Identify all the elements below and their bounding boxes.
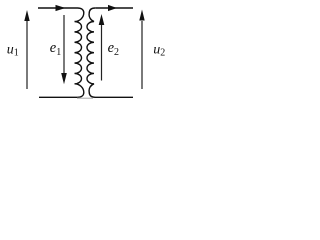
arrow e2 emf (up) — [101, 25, 103, 81]
wire: faint joining segment at bottom center — [77, 97, 93, 99]
wire: top-left horizontal conductor — [38, 7, 78, 9]
arrow e1 emf (down) — [63, 15, 65, 74]
svg-text:e1: e1 — [50, 40, 61, 58]
svg-text:u2: u2 — [153, 42, 165, 58]
wire: top-right horizontal conductor — [95, 7, 133, 9]
svg-text:e2: e2 — [108, 40, 119, 58]
arrow u2 voltage (up) — [141, 21, 143, 89]
inductor L2 secondary winding — [87, 8, 133, 97]
arrow u1 voltage (up) — [26, 20, 28, 89]
arrowhead current i1 on top-left wire — [56, 5, 66, 11]
svg-text:u1: u1 — [7, 42, 19, 58]
arrowhead current i2 on top-right wire — [108, 5, 117, 11]
inductor L1 primary winding — [39, 8, 84, 97]
